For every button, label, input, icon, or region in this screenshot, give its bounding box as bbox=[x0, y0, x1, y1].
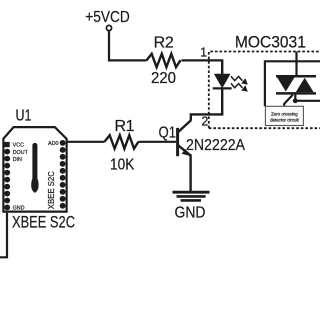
junction dot bbox=[293, 98, 298, 103]
svg-text:220: 220 bbox=[151, 70, 176, 87]
svg-text:MOC3031: MOC3031 bbox=[235, 34, 306, 52]
resistor R1 bbox=[105, 135, 139, 148]
Q1 emitter lead down to ground bbox=[189, 154, 191, 192]
svg-text:+5VCD: +5VCD bbox=[85, 9, 130, 26]
svg-text:1: 1 bbox=[200, 46, 207, 60]
wire XBEE GND pin down and out left bbox=[0, 213, 7, 258]
MOC3031 dashed package box bbox=[209, 52, 320, 129]
Q1 emitter diagonal bbox=[177, 145, 190, 156]
node +5VCD terminal circle bbox=[106, 25, 111, 30]
wire R1 to Q1 base bbox=[139, 141, 177, 143]
svg-text:XBEE S2C: XBEE S2C bbox=[12, 214, 75, 232]
triac bottom plate bbox=[276, 92, 316, 95]
svg-text:U1: U1 bbox=[16, 108, 32, 125]
wire +5VCD down and right to R2 bbox=[109, 31, 147, 61]
XBEE right pin circles bbox=[60, 140, 66, 209]
light arrow 2 bbox=[231, 83, 242, 88]
wire pin4 to right edge bbox=[295, 100, 320, 102]
Q1 emitter arrowhead bbox=[182, 149, 190, 156]
LED anode triangle (emitter diode) bbox=[215, 74, 230, 87]
triac up triangle bbox=[296, 78, 314, 92]
svg-text:GND: GND bbox=[175, 204, 206, 221]
light arrow 1 bbox=[231, 76, 242, 81]
transistor Q1 base bar bbox=[176, 128, 179, 156]
XBEE module U1 body bbox=[3, 127, 66, 212]
wire R2 to MOC pin 1 bbox=[182, 59, 222, 61]
wire XBEE AD0 to R1 bbox=[63, 141, 105, 143]
XBEE left pin circles bbox=[4, 149, 10, 211]
ground symbol bbox=[173, 191, 210, 194]
svg-text:DOUT: DOUT bbox=[13, 150, 29, 156]
svg-text:2: 2 bbox=[201, 115, 208, 129]
zero crossing detector box bbox=[265, 106, 303, 125]
resistor R2 bbox=[147, 54, 181, 67]
XBEE pin 1 square (VCC) bbox=[4, 142, 9, 147]
XBEE antenna shape bbox=[31, 143, 38, 193]
svg-text:Zero crossing: Zero crossing bbox=[271, 111, 298, 116]
wire pin1 corner down to LED bbox=[221, 59, 223, 74]
triac down triangle bbox=[277, 78, 294, 92]
svg-text:detector circuit: detector circuit bbox=[270, 117, 299, 122]
Q1 collector diagonal bbox=[177, 120, 191, 133]
svg-text:XBEE S2C: XBEE S2C bbox=[47, 171, 56, 209]
svg-text:DIN: DIN bbox=[13, 157, 22, 163]
svg-text:2N2222A: 2N2222A bbox=[186, 137, 246, 154]
svg-text:VCC: VCC bbox=[13, 143, 24, 149]
triac top rail and left lead bbox=[265, 61, 320, 106]
svg-text:10K: 10K bbox=[110, 156, 135, 173]
wire LED down, left to pin 2, down to Q1 collector bbox=[191, 88, 222, 120]
svg-text:GND: GND bbox=[13, 205, 25, 211]
triac pin6 stub through dashed edge bbox=[295, 52, 297, 77]
svg-text:Q1: Q1 bbox=[159, 124, 177, 141]
triac gate bend into zero-crossing box bbox=[284, 95, 293, 107]
triac top plate bbox=[276, 75, 316, 78]
svg-text:R2: R2 bbox=[154, 35, 174, 52]
LED cathode bar bbox=[213, 87, 232, 89]
triac MT1 lead down to junction bbox=[294, 93, 296, 100]
svg-text:R1: R1 bbox=[114, 118, 134, 135]
svg-text:AD0: AD0 bbox=[48, 141, 59, 147]
